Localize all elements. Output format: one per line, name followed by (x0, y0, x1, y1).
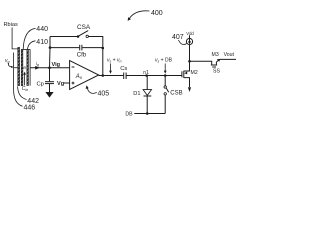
wire Vout (220, 58, 236, 60)
junction dot CSB top (164, 74, 167, 77)
wire feedback left vertical (49, 37, 52, 68)
wire CSA branch left (50, 36, 78, 38)
svg-text:DB: DB (125, 111, 133, 117)
diode D1 (146, 76, 148, 90)
wire sensor output to op-amp minus input (30, 67, 70, 69)
wire left plate to vg line (14, 67, 18, 69)
wire CSA branch right (88, 37, 102, 76)
svg-text:442: 442 (27, 98, 39, 105)
junction dot Cfb right (102, 47, 105, 50)
junction dot M2 drain node (188, 60, 191, 63)
wire to M3 (190, 61, 212, 65)
svg-text:B: B (23, 65, 26, 70)
wire Rbias vertical (12, 28, 18, 49)
leader 442 (18, 86, 27, 99)
svg-text:Vout: Vout (224, 52, 235, 58)
svg-text:Vdd: Vdd (186, 31, 194, 36)
svg-text:M3: M3 (212, 52, 219, 58)
svg-text:410: 410 (36, 39, 48, 46)
svg-text:M2: M2 (191, 70, 198, 76)
svg-text:440: 440 (36, 26, 48, 33)
node Vig junction dot (48, 66, 51, 69)
svg-text:vs + vn: vs + vn (107, 58, 122, 64)
wire Cfb branch left (50, 47, 79, 49)
switch CSB (164, 76, 166, 86)
ground symbol below Cp (45, 92, 53, 98)
junction dot Cfb left (49, 46, 52, 49)
svg-text:407: 407 (172, 34, 184, 41)
transistor M2 (181, 71, 183, 77)
svg-text:Vig: Vig (52, 62, 61, 68)
wire left plate terminal (leader 446 line) (14, 53, 23, 107)
junction dot output node (102, 74, 105, 77)
svg-text:Rbias: Rbias (4, 22, 19, 28)
displacement arrow inside sensor gap (24, 74, 26, 85)
capacitor Cp branch (49, 68, 51, 82)
svg-text:400: 400 (151, 10, 163, 17)
op-amp U 405 (70, 61, 99, 90)
svg-text:Vg: Vg (57, 81, 65, 87)
current arrow below M2 (188, 87, 191, 92)
svg-text:446: 446 (24, 105, 36, 112)
svg-text:ig: ig (36, 61, 39, 67)
svg-text:CSA: CSA (77, 24, 91, 31)
svg-text:405: 405 (98, 91, 110, 98)
svg-text:Cin: Cin (22, 86, 29, 92)
svg-text:Cp: Cp (37, 82, 44, 88)
svg-text:CSB: CSB (170, 91, 182, 97)
sensor plate 440 (left electrode) (18, 47, 20, 85)
svg-text:Cfb: Cfb (77, 52, 87, 58)
svg-text:SS: SS (213, 68, 220, 74)
svg-text:Cs: Cs (120, 66, 127, 72)
capacitor Cfb (79, 45, 81, 51)
wire Cfb branch right (82, 47, 103, 49)
sensor body 410 top line (21, 48, 30, 50)
svg-text:D1: D1 (133, 91, 140, 97)
sensor plate 442 (inner left electrode) (21, 49, 23, 85)
switch CSA (77, 35, 80, 38)
sensor plate (inner right electrode) (27, 49, 29, 85)
wire op-amp output (99, 75, 124, 77)
svg-text:vs + DB: vs + DB (155, 58, 173, 64)
sensor right wall (29, 49, 31, 85)
svg-text:A0: A0 (75, 74, 83, 80)
wire plus input (64, 82, 70, 84)
wire Cs to M2 gate (127, 75, 182, 77)
